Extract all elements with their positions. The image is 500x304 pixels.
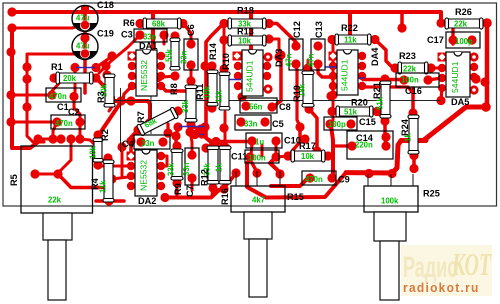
pad node j bbox=[163, 128, 172, 137]
pad R18 left bbox=[219, 19, 228, 28]
wire DA1 pin to center bbox=[123, 86, 132, 100]
pad C8 right bbox=[267, 102, 276, 111]
wire x122 vertical bbox=[121, 147, 124, 176]
pad R12 bottom bbox=[208, 183, 217, 192]
capacitor C14 box bbox=[347, 131, 393, 159]
svg-text:33n: 33n bbox=[244, 120, 258, 129]
op-amp DA1 bbox=[136, 50, 157, 96]
potentiometer R5 shaft bbox=[48, 240, 66, 300]
pad R8 top bbox=[170, 31, 179, 40]
pad DA2 pin right 2 bbox=[157, 162, 165, 170]
wire bottom pad row bbox=[38, 138, 62, 141]
pad R26 left bbox=[436, 18, 445, 27]
pad center c bbox=[106, 96, 115, 105]
wire R18 right to C12 bbox=[269, 24, 296, 47]
svg-text:R10: R10 bbox=[221, 53, 231, 70]
wire C10-C11 stub c bbox=[275, 143, 278, 156]
pad R14 bottom bbox=[207, 103, 216, 112]
pad C4 left bbox=[136, 137, 145, 146]
svg-text:R3: R3 bbox=[96, 91, 106, 103]
pad C6 bottom bbox=[186, 60, 195, 69]
pad node x bbox=[171, 131, 180, 140]
pad jumper W1 right bbox=[91, 63, 100, 72]
wire rail1 to C2 bbox=[12, 121, 57, 124]
pad C19 minus overlay bbox=[81, 49, 90, 58]
svg-text:10k: 10k bbox=[89, 145, 98, 159]
pad R20 left bbox=[327, 107, 336, 116]
wire C15 to C9 vertical bbox=[331, 126, 333, 176]
pad blackline end bbox=[436, 96, 445, 105]
svg-text:R20: R20 bbox=[351, 98, 368, 108]
resistor R7 body diagonal bbox=[137, 107, 179, 136]
pad node z bbox=[237, 92, 246, 101]
pad node s bbox=[397, 23, 406, 32]
pad R9 top bbox=[172, 141, 181, 150]
resistor R14 body bbox=[207, 70, 218, 106]
svg-text:R21: R21 bbox=[372, 82, 382, 99]
pad DA2 pin right 4 bbox=[157, 182, 165, 190]
svg-text:R24: R24 bbox=[400, 118, 410, 136]
wire C12 to R17 column bbox=[296, 64, 300, 126]
pad R2 top bbox=[93, 130, 102, 139]
svg-text:544UD1: 544UD1 bbox=[340, 59, 350, 91]
svg-text:R6: R6 bbox=[123, 18, 135, 28]
jumper wire W2 bbox=[221, 79, 241, 81]
pad pot R25 pin2 bbox=[387, 169, 396, 178]
wire stub to C19 bbox=[27, 53, 81, 56]
svg-text:DA5: DA5 bbox=[451, 97, 469, 107]
wire center L bbox=[96, 78, 150, 128]
svg-text:C19: C19 bbox=[97, 29, 114, 39]
resistor R4 body bbox=[103, 160, 114, 202]
pad C9 left bbox=[305, 173, 314, 182]
wire C6 to R8 bbox=[190, 65, 193, 81]
pad DA2 pin right 3 bbox=[157, 172, 165, 180]
pad R9 bottom bbox=[172, 178, 181, 187]
pad node g bbox=[196, 124, 205, 133]
pad DA1 pin right 4 bbox=[157, 82, 165, 90]
pad left rail 4 bbox=[6, 117, 15, 126]
pad left rail 2 bbox=[6, 47, 15, 56]
svg-text:10k: 10k bbox=[238, 37, 252, 46]
svg-text:R26: R26 bbox=[455, 7, 472, 17]
pad node h bbox=[117, 142, 126, 151]
wire R2 diag feed bbox=[98, 102, 121, 136]
pad pot R15 pin1 bbox=[231, 168, 240, 177]
svg-text:C3: C3 bbox=[121, 30, 133, 40]
capacitor C6 box bbox=[184, 39, 198, 70]
jumper wire W4 bbox=[325, 66, 342, 68]
wire DA2 S link bbox=[161, 156, 167, 166]
potentiometer R15 pins bbox=[236, 171, 280, 186]
wire R12 bottom to bus bbox=[212, 186, 213, 195]
wire C1 right to C2 right bbox=[74, 97, 80, 122]
pad C1 right bbox=[69, 92, 78, 101]
svg-text:R13: R13 bbox=[237, 27, 254, 37]
svg-text:47n: 47n bbox=[285, 53, 294, 67]
wire DA4 vertical feed bbox=[348, 12, 352, 36]
potentiometer R5 body bbox=[21, 146, 93, 213]
pad DA2 pin left 2 bbox=[127, 162, 135, 170]
svg-text:R19: R19 bbox=[292, 85, 302, 102]
jumper wire W1 bbox=[76, 67, 95, 69]
pad DA3 pin left 3 bbox=[234, 72, 242, 80]
pad diag end bbox=[481, 102, 491, 112]
resistor R18 body bbox=[228, 18, 266, 29]
wire R20 to R21 bbox=[377, 112, 383, 119]
op-amp DA3 bbox=[242, 50, 263, 96]
pad bottom row d bbox=[66, 134, 75, 143]
svg-text:C6: C6 bbox=[186, 24, 196, 36]
pad R24 top bbox=[408, 108, 417, 117]
svg-text:C8: C8 bbox=[279, 102, 291, 112]
pad C9 right bbox=[327, 173, 336, 182]
pad node r19e bbox=[312, 146, 321, 155]
wire R9 bottom to bus bbox=[175, 183, 178, 196]
svg-text:C7: C7 bbox=[185, 185, 195, 197]
svg-text:C14: C14 bbox=[356, 133, 374, 143]
wire node c-d bbox=[158, 76, 175, 78]
wire R1 right diag bbox=[96, 57, 111, 68]
pad pot R15 pin3 bbox=[275, 169, 284, 178]
pad C19 minus bbox=[80, 49, 89, 58]
pad node o bbox=[381, 132, 390, 141]
pad DA3 pin left 4 bbox=[234, 82, 242, 90]
resistor R19 body bbox=[302, 71, 314, 107]
svg-text:55k: 55k bbox=[165, 48, 174, 62]
svg-text:КОТ: КОТ bbox=[451, 246, 492, 282]
pad R16 bottom bbox=[219, 184, 228, 193]
pad C8 left bbox=[241, 101, 250, 110]
wire x281 vertical bbox=[274, 55, 281, 106]
svg-text:R25: R25 bbox=[423, 189, 440, 199]
pad node f bbox=[221, 143, 230, 152]
pad node k bbox=[276, 50, 285, 59]
pad jumper W1 left bbox=[70, 63, 79, 72]
pad DA4 pin left 4 bbox=[329, 82, 337, 90]
resistor R20 body bbox=[336, 106, 373, 117]
pad R8 bottom bbox=[170, 71, 179, 80]
pad R12 top bbox=[208, 141, 217, 150]
wire C10-C11 stub b bbox=[261, 145, 264, 156]
pad jumper W5 right bbox=[200, 122, 209, 131]
wire R19 top stub bbox=[307, 60, 310, 68]
via DA5 right 1 bbox=[471, 54, 477, 60]
svg-text:470n: 470n bbox=[305, 175, 323, 184]
svg-text:R7: R7 bbox=[136, 111, 146, 123]
svg-text:R16: R16 bbox=[220, 188, 230, 205]
svg-text:470n: 470n bbox=[49, 92, 67, 101]
pad C7 bottom bbox=[187, 173, 196, 182]
svg-text:C2: C2 bbox=[68, 107, 80, 117]
svg-text:Радио: Радио bbox=[403, 252, 458, 285]
pad mid col a bbox=[200, 61, 209, 70]
pad DA3 pin1 square bbox=[233, 52, 242, 61]
potentiometer R25 shaft bbox=[380, 241, 399, 300]
potentiometer R25 body bbox=[364, 186, 418, 212]
pad C12 bottom bbox=[291, 59, 300, 68]
svg-text:33n: 33n bbox=[182, 162, 191, 176]
wire R21 to C16 bbox=[363, 78, 403, 81]
svg-text:100p: 100p bbox=[328, 120, 346, 129]
wire C11 to pot pin2 bbox=[252, 163, 257, 172]
pad C13 bottom bbox=[313, 59, 322, 68]
svg-text:NE5532: NE5532 bbox=[139, 160, 149, 191]
pad DA3 pin right 3 bbox=[263, 72, 271, 80]
board outline bbox=[3, 3, 497, 206]
pad pot R5 left bbox=[30, 169, 39, 178]
pad R1 right bbox=[91, 73, 100, 82]
wire node j up bbox=[166, 124, 169, 133]
svg-text:R5: R5 bbox=[9, 174, 19, 186]
pad R16 top bbox=[219, 141, 228, 150]
pad C16 right bbox=[423, 75, 432, 84]
svg-text:100k: 100k bbox=[381, 197, 399, 206]
pad node i bbox=[107, 174, 116, 183]
pad DA1 pin left 3 bbox=[128, 72, 136, 80]
svg-text:C12: C12 bbox=[292, 21, 302, 38]
pad R23 right bbox=[426, 63, 435, 72]
capacitor C4 box bbox=[134, 135, 170, 149]
pad left rail top bbox=[7, 23, 16, 32]
pad R21 bottom bbox=[380, 116, 389, 125]
wire y166 row bbox=[98, 165, 131, 168]
svg-text:100p: 100p bbox=[455, 37, 473, 46]
jumper wire W6 bbox=[195, 134, 204, 136]
capacitor C10 box bbox=[246, 133, 282, 148]
pad R13 left bbox=[219, 35, 228, 44]
pad node b bbox=[102, 70, 111, 79]
svg-text:R22: R22 bbox=[341, 23, 358, 33]
pad C15 right bbox=[346, 119, 355, 128]
pad DA1 pin left 4 bbox=[128, 82, 136, 90]
op-amp DA5 bbox=[446, 52, 470, 97]
svg-text:47u: 47u bbox=[76, 14, 90, 23]
jumper wire W5 bbox=[179, 126, 205, 128]
pad R7 upper bbox=[173, 106, 182, 115]
wire second left rail bbox=[27, 55, 44, 142]
wire DA4 to R24 column bbox=[363, 87, 412, 92]
potentiometer R15 shaft bbox=[249, 239, 267, 297]
pad C2 right bbox=[75, 117, 84, 126]
svg-text:51k: 51k bbox=[344, 108, 358, 117]
svg-text:47u: 47u bbox=[76, 42, 90, 51]
wire mid column bbox=[206, 23, 251, 142]
capacitor C2 box bbox=[51, 115, 85, 129]
wire y201 row bbox=[96, 199, 124, 203]
svg-text:C15: C15 bbox=[359, 117, 376, 127]
wire rail1 to C1 bbox=[12, 94, 52, 97]
pad mid col c bbox=[201, 143, 210, 152]
via DA5 right 4 bbox=[471, 87, 477, 93]
capacitor C11 box bbox=[245, 150, 279, 163]
pad DA4 pin left 2 bbox=[329, 62, 337, 70]
wire W5 to C7 top bbox=[190, 132, 192, 154]
potentiometer R15 body bbox=[231, 186, 285, 212]
pad C16 left bbox=[399, 75, 408, 84]
resistor R6 body bbox=[143, 18, 181, 29]
pad R21 top bbox=[380, 74, 389, 83]
pad C18 minus bbox=[80, 20, 89, 29]
pad node u bbox=[107, 51, 116, 60]
wire R10 bottom bbox=[224, 112, 227, 148]
pad R11 top bbox=[186, 76, 195, 85]
op-amp DA4 bbox=[337, 50, 358, 95]
pad C19 plus bbox=[80, 33, 89, 42]
pad C11 left bbox=[245, 152, 254, 161]
wire R26 to C17 bbox=[451, 28, 454, 44]
pad R1 left bbox=[49, 73, 58, 82]
op-amp DA2 bbox=[135, 150, 157, 196]
wire C1 left to R1 bbox=[52, 80, 62, 95]
svg-text:470n: 470n bbox=[55, 119, 73, 128]
svg-text:47n: 47n bbox=[307, 53, 316, 67]
wire R16 to pot pin1 bbox=[224, 173, 236, 188]
wire R7 lower to DA2 bbox=[131, 130, 138, 155]
pad DA4 pin right 3 bbox=[358, 72, 366, 80]
wire jumper pad to C1 right bbox=[74, 68, 77, 95]
pad DA1 pin right 3 bbox=[157, 72, 165, 80]
pad R6 right bbox=[178, 19, 187, 28]
pad pot R5 wiper bbox=[53, 169, 62, 178]
wire C3 right stub bbox=[163, 35, 166, 44]
pad R10 top bbox=[219, 64, 228, 73]
wire DA1 vertical feed bbox=[151, 12, 155, 49]
pad C12 top bbox=[291, 41, 300, 50]
svg-text:R1: R1 bbox=[51, 62, 63, 72]
pad R7 lower bbox=[133, 125, 142, 134]
wire R3 join bbox=[109, 105, 113, 111]
pad DA4 pin right 4 bbox=[358, 82, 366, 90]
pad C17 left bbox=[448, 35, 457, 44]
capacitor C7 box bbox=[185, 148, 199, 185]
pad R22 right bbox=[370, 35, 379, 44]
wire C9 left into pot bbox=[271, 178, 308, 186]
svg-text:22k: 22k bbox=[48, 196, 62, 205]
wire pot R5 wiper out bbox=[58, 174, 102, 188]
wire C10-C11 stub a bbox=[251, 143, 252, 156]
svg-text:C17: C17 bbox=[427, 35, 444, 45]
pad jumper W6 left bbox=[190, 130, 199, 139]
resistor R17 body bbox=[291, 150, 325, 162]
pad R23 left bbox=[390, 63, 399, 72]
pad C4 right bbox=[158, 137, 167, 146]
wire C13 to DA4 bbox=[318, 64, 331, 77]
pad DA4 pin right 1 bbox=[358, 52, 366, 60]
wire C14 left link bbox=[334, 144, 352, 147]
pad C11 right bbox=[271, 152, 280, 161]
svg-text:11k: 11k bbox=[344, 36, 357, 45]
pad node w bbox=[326, 91, 335, 100]
resistor R10 body bbox=[219, 72, 230, 110]
pad rail2 b bbox=[22, 74, 31, 83]
wire R6 to C6 bbox=[183, 24, 191, 44]
pad node n bbox=[328, 90, 337, 99]
svg-text:C9: C9 bbox=[338, 175, 350, 185]
svg-text:R17: R17 bbox=[299, 141, 316, 151]
wire node a stub bbox=[99, 66, 106, 73]
potentiometer R25 pins bbox=[368, 174, 413, 186]
wire C7 bottom stub bbox=[191, 178, 194, 190]
svg-text:C13: C13 bbox=[314, 21, 324, 38]
wire C16 to DA5 bbox=[428, 78, 442, 80]
pad DA5 pin right 3 bbox=[470, 73, 478, 81]
wire DA3 vertical feed bbox=[249, 12, 253, 49]
pad C5 left bbox=[236, 117, 245, 126]
svg-text:R4: R4 bbox=[90, 177, 100, 190]
wire pot R5 top right bbox=[80, 139, 105, 160]
capacitor C18 body bbox=[72, 6, 98, 32]
wire pot pin3 diag bbox=[270, 158, 281, 174]
wire R22 column bbox=[331, 40, 333, 124]
resistor R12 body bbox=[207, 146, 219, 184]
pad DA4 pin right 2 bbox=[358, 62, 366, 70]
wire R15 wiper bus bbox=[247, 158, 346, 198]
pad C15 left bbox=[325, 119, 334, 128]
wire right rail vertical bbox=[485, 23, 490, 107]
resistor R2 body bbox=[93, 138, 103, 162]
potentiometer R15 bushing bbox=[244, 212, 272, 239]
pad C18 plus square bbox=[81, 6, 89, 14]
svg-text:33k: 33k bbox=[167, 162, 176, 176]
svg-text:C1: C1 bbox=[57, 102, 69, 112]
pad R19 top bbox=[303, 63, 312, 72]
pad R17 left bbox=[283, 151, 292, 160]
wire C16 to R24 bbox=[411, 88, 415, 113]
pad jumper W5 left bbox=[173, 122, 182, 131]
svg-text:33k: 33k bbox=[181, 99, 190, 113]
wire top supply rail bbox=[12, 12, 441, 21]
pad R10 bottom bbox=[219, 123, 228, 132]
wire R13 right down bbox=[269, 39, 279, 56]
wire R18-R13 link bbox=[223, 24, 226, 70]
svg-text:33n: 33n bbox=[141, 139, 155, 148]
svg-text:radiokot.ru: radiokot.ru bbox=[403, 281, 480, 296]
capacitor C9 box bbox=[302, 171, 336, 185]
resistor R8 body bbox=[170, 38, 180, 70]
svg-text:544UD1: 544UD1 bbox=[245, 60, 255, 92]
pad node e bbox=[274, 52, 283, 61]
resistor R13 body bbox=[228, 35, 266, 46]
wire DA5 pin4 to node bbox=[441, 88, 442, 100]
pad node y bbox=[185, 127, 194, 136]
capacitor C3 box bbox=[134, 29, 167, 42]
pad node t bbox=[471, 74, 480, 83]
via DA3 right 4 bbox=[265, 86, 271, 92]
svg-text:1k: 1k bbox=[215, 163, 224, 172]
pad pot R25 pin1 bbox=[364, 169, 373, 178]
pad R17 right bbox=[323, 151, 332, 160]
pad C7 top bbox=[187, 150, 196, 159]
potentiometer R5 bushing bbox=[43, 213, 72, 240]
pad C3 left bbox=[135, 30, 144, 39]
pad R20 right bbox=[372, 107, 381, 116]
pad C10 right bbox=[271, 136, 280, 145]
pad C2 left bbox=[52, 117, 61, 126]
wire left rail vertical bbox=[12, 28, 38, 148]
wire electrolytic column bbox=[83, 8, 87, 93]
pad center a bbox=[116, 96, 125, 105]
svg-text:C18: C18 bbox=[97, 0, 114, 10]
pad C6 top bbox=[186, 39, 195, 48]
pad C5 right bbox=[260, 117, 269, 126]
wire big diagonal bbox=[424, 107, 484, 140]
pad DA4 pin left 3 bbox=[329, 72, 337, 80]
pad node a bbox=[101, 61, 110, 70]
wire R22 right to R23 bbox=[375, 40, 392, 68]
svg-text:C4: C4 bbox=[122, 139, 135, 149]
via DA3 right 1 bbox=[265, 54, 271, 60]
